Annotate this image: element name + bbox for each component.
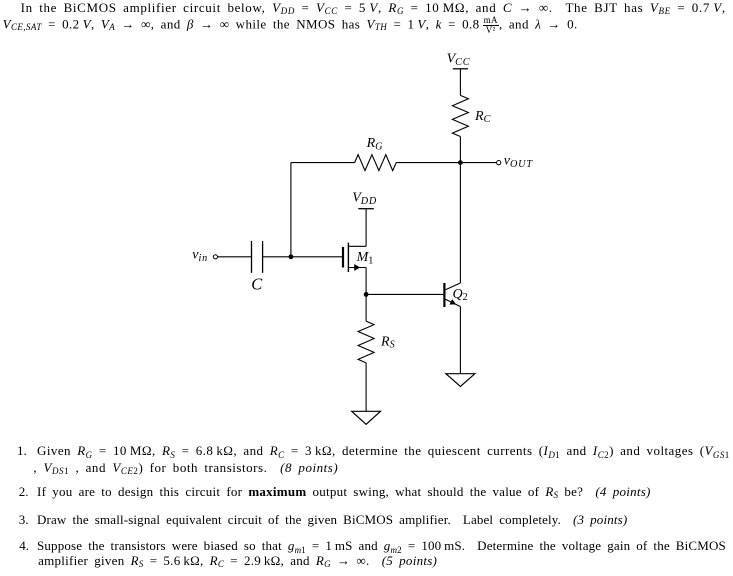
wire VDD to drain bbox=[365, 209, 367, 247]
resistor RC value label bbox=[474, 109, 491, 125]
label vin bbox=[192, 247, 208, 264]
wire capacitor to gate bbox=[263, 256, 342, 258]
svg-text:VCC: VCC bbox=[447, 52, 471, 68]
resistor RG label bbox=[366, 136, 384, 152]
node source junction bbox=[364, 292, 369, 297]
power VDD bar bbox=[358, 208, 374, 210]
transistor M1 source lead bbox=[348, 267, 366, 269]
resistor RC bbox=[452, 95, 468, 136]
power VCC label bbox=[447, 52, 471, 68]
transistor Q2 collector lead bbox=[446, 283, 461, 290]
wire left to RG bbox=[291, 162, 355, 164]
capacitor C bbox=[252, 241, 263, 273]
transistor Q2 emitter arrow bbox=[450, 299, 457, 304]
power VDD label bbox=[352, 191, 377, 207]
paragraph line 2 bbox=[3, 16, 578, 35]
wire RG left vertical to gate node bbox=[290, 163, 292, 257]
wire source to node bbox=[365, 268, 367, 295]
wire node to base bbox=[366, 293, 443, 295]
wire RC to node bbox=[459, 137, 461, 163]
svg-text:RC: RC bbox=[474, 109, 491, 125]
svg-text:vin: vin bbox=[192, 247, 208, 264]
transistor M1 source arrow bbox=[354, 264, 360, 271]
terminal vin bbox=[213, 255, 217, 259]
svg-text:C: C bbox=[251, 274, 263, 293]
svg-text:M1: M1 bbox=[356, 250, 375, 266]
transistor Q2 label bbox=[453, 287, 469, 303]
wire RG to node bbox=[396, 162, 460, 164]
svg-text:RG: RG bbox=[366, 136, 384, 152]
item 1 line 2 bbox=[33, 461, 338, 474]
power VCC bar bbox=[453, 68, 468, 70]
wire node to RS bbox=[365, 294, 367, 321]
wire collector to node bbox=[459, 163, 461, 283]
item 4 line 2 bbox=[38, 554, 437, 567]
item 2 bbox=[37, 485, 651, 498]
wire node to vOUT terminal bbox=[460, 162, 496, 164]
ground under RS bbox=[352, 411, 381, 424]
transistor M1 drain lead bbox=[348, 245, 366, 247]
item 1 number bbox=[17, 444, 27, 457]
item 4 line 1 bbox=[37, 539, 726, 552]
item 2 number bbox=[19, 485, 29, 498]
transistor M1 channel bar bbox=[347, 243, 349, 272]
node collector-output junction bbox=[458, 160, 463, 165]
item 4 number bbox=[19, 539, 29, 552]
transistor Q2 base bar bbox=[443, 283, 445, 307]
svg-text:vOUT: vOUT bbox=[504, 153, 534, 170]
transistor M1 gate bar bbox=[342, 247, 344, 268]
wire VCC to RC bbox=[459, 69, 461, 96]
svg-text:Q2: Q2 bbox=[453, 287, 469, 303]
paragraph line 1 bbox=[21, 1, 726, 14]
wire emitter to ground bbox=[459, 307, 461, 374]
item 1 line 1 bbox=[37, 444, 730, 457]
wire vin to capacitor bbox=[218, 256, 252, 258]
svg-text:RS: RS bbox=[380, 335, 395, 351]
resistor RG bbox=[355, 155, 397, 171]
label vOUT bbox=[504, 153, 534, 170]
transistor M1 label bbox=[356, 250, 375, 266]
item 3 bbox=[37, 513, 627, 526]
svg-text:VDD: VDD bbox=[352, 191, 377, 207]
ground under Q2 bbox=[446, 374, 475, 387]
capacitor C label bbox=[251, 274, 263, 293]
wire RS to ground bbox=[365, 363, 367, 411]
item 3 number bbox=[19, 513, 29, 526]
terminal vOUT bbox=[497, 161, 501, 165]
resistor RS bbox=[358, 321, 374, 363]
transistor Q2 emitter lead bbox=[446, 299, 461, 306]
resistor RS label bbox=[380, 335, 395, 351]
node gate junction bbox=[289, 254, 294, 259]
